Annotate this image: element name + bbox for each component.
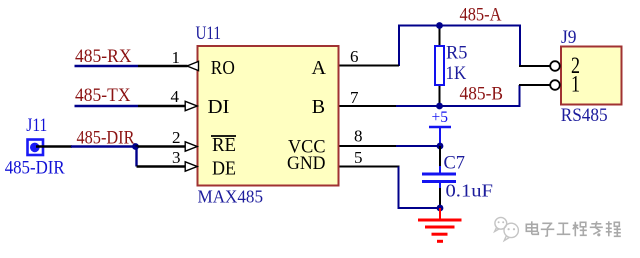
svg-text:J9: J9 [561,27,577,48]
pin 4 arrow (in) [185,101,197,110]
char 电 [526,221,538,234]
svg-text:R5: R5 [446,43,467,64]
svg-text:485-DIR: 485-DIR [5,158,65,179]
resistor R5 pins black [439,26,441,48]
svg-text:485-TX: 485-TX [75,85,131,106]
svg-text:6: 6 [350,47,359,66]
wire: 485-DIR blue segment [71,145,137,147]
IC U11 MAX485 body [198,46,339,186]
wire: J9 pin1 black [519,84,550,86]
svg-text:1K: 1K [446,63,467,84]
svg-text:GND: GND [287,153,326,174]
svg-text:4: 4 [171,87,180,106]
char 工 [557,223,571,234]
connector J11 pad symbol [28,140,44,156]
node: junction VCC/+5/C7 [437,143,444,150]
pin 3 wire black [137,165,186,167]
wire: 485-B blue horizontal [396,85,520,106]
ground symbol [418,208,462,241]
svg-text:RE: RE [212,134,236,156]
svg-text:+5: +5 [432,109,449,126]
char 子 [541,223,555,236]
wire: top net 485-A horizontal [399,26,520,67]
connector J9 body [561,47,622,105]
svg-text:5: 5 [354,148,363,167]
pin 4 wire black [138,105,185,107]
svg-text:RO: RO [211,57,235,79]
watermark text 电子工程专辑 (drawn strokes) [526,221,621,236]
char 辑 [606,221,621,236]
wire: J9 pin2 black [519,65,550,67]
wire: pin5 GND black [338,166,400,168]
J9 pin circle 1 [550,80,560,90]
pin 2 wire black [136,145,186,147]
wire: GND blue path to ground [399,167,441,209]
svg-text:1: 1 [172,48,181,67]
svg-text:J11: J11 [26,115,47,136]
svg-text:DE: DE [212,157,236,179]
svg-text:RS485: RS485 [561,105,608,126]
svg-text:485-RX: 485-RX [75,46,132,67]
watermark logo (two bubbles) [495,217,519,240]
svg-text:485-A: 485-A [460,5,502,26]
svg-text:B: B [312,96,325,118]
power +5 symbol [429,109,451,146]
capacitor C7 plates [422,173,456,176]
svg-text:485-B: 485-B [460,84,504,105]
capacitor C7 top pin [439,146,441,167]
svg-text:A: A [312,57,327,79]
pin 3 arrow (in) [185,162,197,171]
wire: 485-TX blue segment [75,105,139,107]
node: junction 485-A / R5 [436,22,443,29]
wire: VCC blue to +5 node [396,145,441,147]
capacitor C7 bottom pin [439,182,441,189]
wire: pin7 black horizontal [338,105,397,107]
wire: DIR vertical split [135,147,137,167]
node: junction 485-DIR split [132,143,139,150]
J9 pin circle 2 [550,61,560,71]
svg-text:0.1uF: 0.1uF [446,181,494,201]
svg-text:U11: U11 [196,23,222,44]
svg-text:8: 8 [354,127,363,146]
wire: pin6 black horizontal [338,65,399,67]
node: junction 485-B / R5 [436,103,443,110]
wire: pin8 VCC black [338,145,397,147]
svg-text:3: 3 [172,148,181,167]
char 程 [573,222,587,237]
node: junction GND/C7/ground [437,205,444,212]
svg-text:C7: C7 [444,153,466,174]
pin 1 wire black [138,65,188,67]
pin 1 arrow (out) [187,61,199,70]
svg-text:DI: DI [208,96,230,118]
svg-text:7: 7 [350,88,359,107]
svg-text:485-DIR: 485-DIR [77,128,135,149]
resistor R5 body [435,46,444,85]
svg-text:MAX485: MAX485 [198,187,264,207]
svg-text:1: 1 [571,72,580,97]
char 专 [590,221,603,235]
wire: J11 pin black [36,145,72,147]
svg-text:2: 2 [172,128,181,147]
pin 2 arrow (in) [185,142,197,151]
wire: 485-RX blue segment [75,65,139,67]
